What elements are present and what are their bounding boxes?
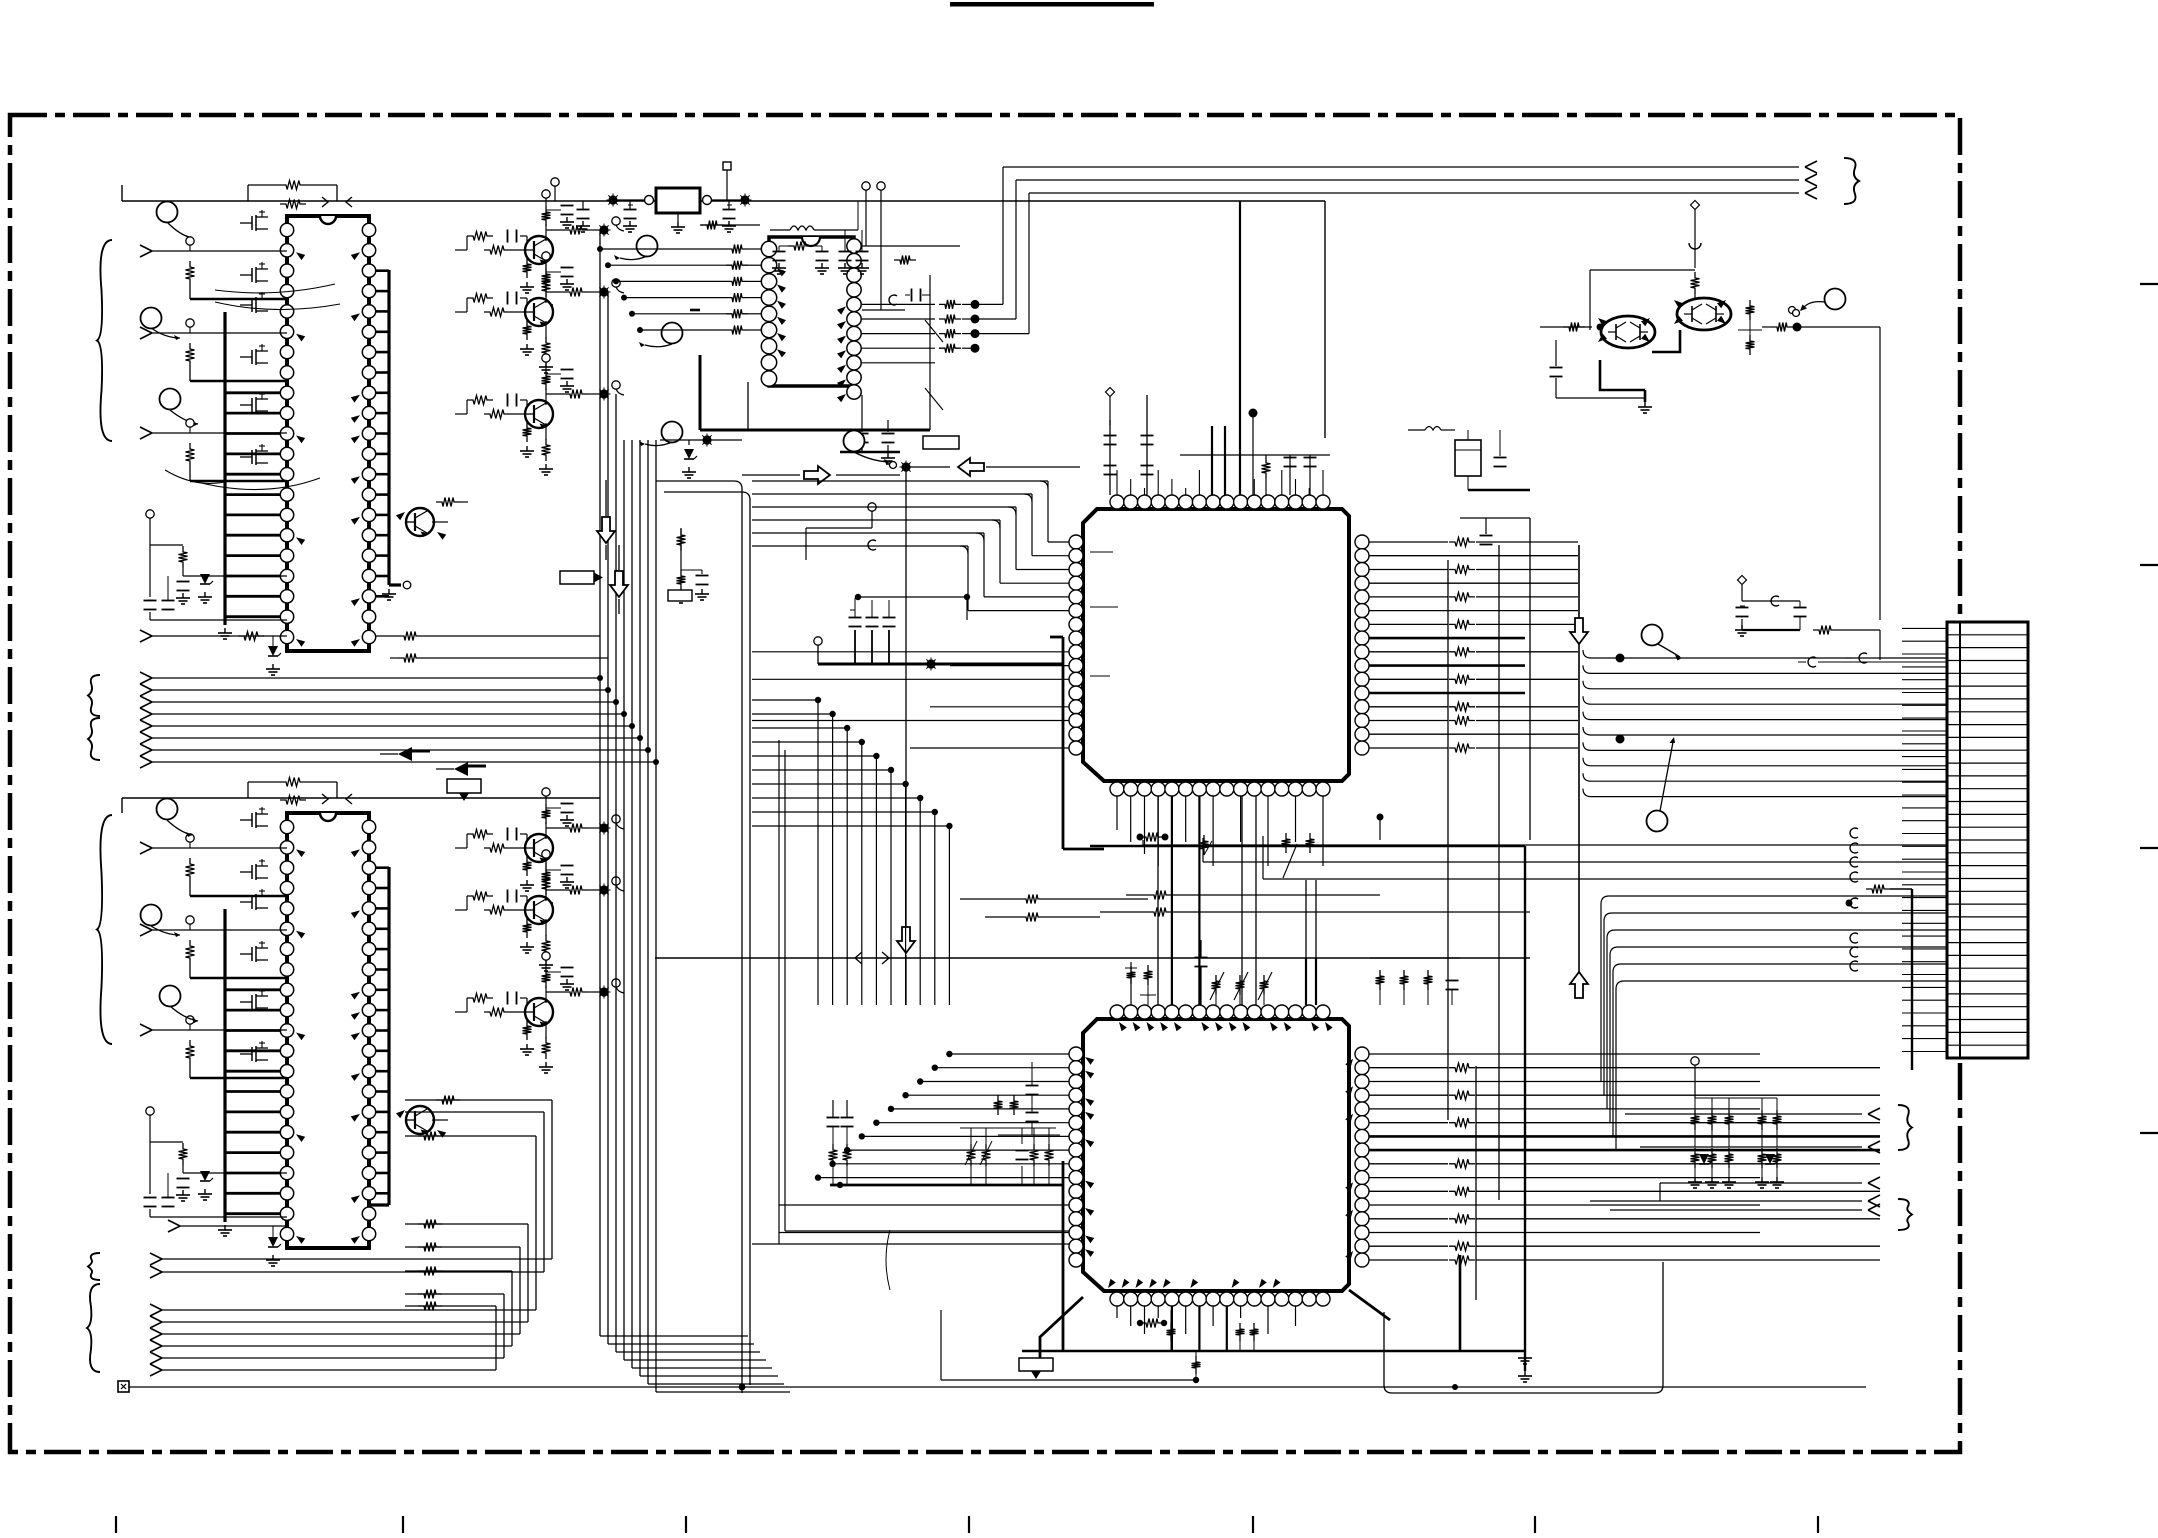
- U2 left ground bus: [223, 909, 226, 1222]
- transistor Q8: [406, 1106, 434, 1134]
- thick net left of U4: [1062, 637, 1065, 849]
- U1 right bus: [387, 270, 390, 585]
- pull-down bank right: [1691, 1057, 1699, 1065]
- hollow arrow3: [597, 517, 615, 543]
- brace group4: [88, 1253, 100, 1280]
- connector CN1: [1947, 622, 2028, 1058]
- hollow arrow5: [897, 927, 915, 953]
- U2 input network 1: [140, 842, 152, 848]
- U5 bottom network: [1116, 1306, 1118, 1318]
- fan lower to connector: [1143, 844, 1947, 846]
- dual transistor packs Q10/Q11: [1601, 316, 1655, 348]
- callout circle B: [141, 308, 162, 329]
- hollow arrow2: [958, 458, 984, 476]
- bottom margin ticks: [115, 1516, 117, 1533]
- staircase bus to U5: [752, 699, 818, 701]
- U1 input network 2: [140, 327, 152, 333]
- callout right-top: [1825, 289, 1846, 310]
- filter L1/C group: [790, 226, 814, 230]
- label box above U2: [447, 779, 481, 793]
- RC centre-left: [677, 529, 686, 551]
- U5 left caps: [1026, 1085, 1039, 1087]
- IC U1: [287, 216, 369, 651]
- label box centre: [923, 436, 959, 449]
- U2 top rail: [121, 798, 123, 813]
- U2 bottom input: [168, 1220, 180, 1226]
- U4 top-right LC: [1425, 427, 1441, 431]
- brace group5: [87, 1284, 100, 1372]
- cap C1 at rail: [554, 186, 556, 201]
- callout centre: [844, 431, 865, 452]
- label box bottom: [1019, 1358, 1053, 1371]
- U3 input resistors: [726, 245, 748, 254]
- U4 left pin feeds lower: [752, 651, 1069, 653]
- leader arrows U1: [215, 284, 335, 293]
- U2 right bus: [387, 867, 390, 1205]
- resistor R90: [1866, 885, 1890, 894]
- transistor Q6 channel: [467, 892, 493, 901]
- brace group2: [88, 675, 100, 716]
- IC U5 (QFP): [1083, 1019, 1349, 1291]
- callout circle A: [157, 202, 178, 223]
- U2 input network 3: [140, 1024, 152, 1030]
- centre vertical pair: [656, 480, 734, 482]
- centre long bus: [655, 957, 1530, 959]
- brace right2: [1898, 1199, 1912, 1230]
- wire VCC top rail: [122, 200, 1325, 202]
- callout right2: [1647, 811, 1668, 832]
- right long verticals: [1498, 545, 1500, 1200]
- U3 feeds: [600, 248, 726, 250]
- callout circle C: [160, 389, 181, 410]
- zener centre: [684, 449, 694, 459]
- brace right1: [1898, 1105, 1912, 1150]
- resistor loop above U2: [280, 778, 306, 787]
- analog bus w/ caps: [817, 645, 819, 664]
- callout circle I: [160, 986, 181, 1007]
- fan to connector: [1583, 650, 1947, 658]
- U1 input network 1: [140, 245, 152, 251]
- arrowU on 1579: [1570, 972, 1588, 998]
- U4 left pin feeds: [1048, 541, 1069, 543]
- terminal X2 line: [118, 1381, 129, 1392]
- wire pair above U5: [1148, 908, 1172, 917]
- IC U3: [769, 237, 854, 386]
- U2 input network 2: [140, 924, 152, 930]
- hollow arrow1: [804, 466, 830, 484]
- U3 top terminals: [862, 182, 870, 190]
- bus bottom-left: [150, 1253, 162, 1259]
- U5 left pin wires: [949, 1053, 1069, 1055]
- callout circle H: [141, 905, 162, 926]
- U1 bottom input: [140, 630, 152, 636]
- right margin ticks: [2140, 283, 2158, 285]
- inter-QFP verticals: [1157, 796, 1159, 1005]
- callout circle D: [637, 236, 658, 257]
- U5 bottom-left RC bank: [827, 1117, 840, 1119]
- vertical 1579: [1578, 545, 1580, 990]
- U1 input network 3: [140, 427, 152, 433]
- arrow left filled2: [454, 762, 468, 776]
- arrowD on 1579: [1570, 618, 1588, 644]
- schematic border frame: [10, 115, 1960, 1452]
- U1 bias RC cluster: [146, 510, 154, 518]
- right out arrows: [1625, 1113, 1862, 1115]
- label box TP: [560, 571, 594, 584]
- terminal centre: [868, 503, 876, 511]
- bus U3 to top-right: [975, 303, 1003, 305]
- U4 bottom stubs: [1116, 796, 1118, 830]
- U5 top trimmer cluster: [1144, 965, 1153, 985]
- U3 right caps: [862, 245, 960, 247]
- brace group1: [97, 240, 112, 441]
- U2 bias RC cluster: [146, 1107, 154, 1115]
- U3 thick route: [699, 355, 702, 430]
- RC cluster near CN1: [1738, 576, 1747, 585]
- resistors between QFPs: [1020, 895, 1044, 904]
- bus mid-left: [140, 672, 152, 678]
- verticals x779: [778, 740, 780, 1244]
- cap right of U4: [1480, 535, 1493, 537]
- U5 right outputs: [1369, 1053, 1760, 1055]
- IC U2: [287, 813, 369, 1248]
- U3 output resistors: [862, 303, 935, 305]
- IC U4 (QFP): [1083, 509, 1349, 781]
- U5 corner leads: [1040, 1297, 1083, 1358]
- transistor Q4: [406, 508, 434, 536]
- resistor R1 loop above U1: [280, 181, 306, 190]
- crystal X1: [656, 188, 700, 213]
- transistor Q7 channel: [467, 994, 493, 1003]
- transistor Q3 channel: [467, 396, 493, 405]
- page title underline: [950, 2, 1154, 7]
- hollow arrow4: [610, 571, 628, 597]
- callout right1: [1642, 625, 1663, 646]
- callout circle F: [662, 422, 683, 443]
- bead column: [1850, 828, 1858, 838]
- callout circle E: [662, 323, 683, 344]
- U1 left ground bus: [223, 312, 226, 625]
- transistor Q1 channel: [467, 232, 493, 241]
- bead on fan row: [1859, 653, 1867, 663]
- callout circle G: [157, 799, 178, 820]
- transistor Q2 channel: [467, 294, 493, 303]
- arrow left filled1: [398, 747, 412, 761]
- U4 right outputs: [1369, 541, 1448, 543]
- brace group3: [97, 815, 112, 1044]
- brace top-right: [1844, 158, 1859, 204]
- U4 top decoupling: [1109, 420, 1111, 495]
- transistor Q5 channel: [467, 830, 493, 839]
- bundle A verticals: [599, 230, 601, 1336]
- CN1 stubs: [1902, 627, 1947, 629]
